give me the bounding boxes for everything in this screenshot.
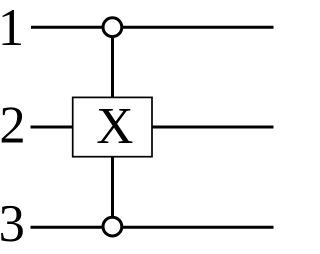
svg-text:2: 2 — [0, 96, 26, 154]
svg-text:1: 1 — [0, 0, 24, 57]
svg-text:3: 3 — [0, 195, 25, 253]
svg-text:X: X — [96, 98, 133, 155]
